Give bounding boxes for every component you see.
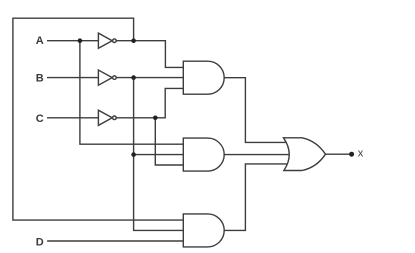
svg-text:D: D [36,237,44,249]
wire input C [47,117,98,119]
and-gate G2 [183,138,224,171]
wire AND gate G3 output to OR gate input 3 [224,164,288,231]
wire NOT-B vertical node to AND gate G2 input 2 [134,154,184,156]
node junction NOT-B output [131,75,136,80]
svg-text:x: x [358,148,364,160]
wire input B [47,77,98,79]
node junction NOT-C output [153,116,158,121]
wire NOT-A output to node [116,40,133,42]
wire AND gate G2 output to OR gate input 2 [224,154,290,156]
and-gate G1 [183,61,224,94]
inverter NOT-A [98,33,112,48]
node junction on NOT-B vertical [131,152,136,157]
wire NOT-C node down to AND gate G2 input 3 [155,118,183,165]
wire NOT-A node up, around left side, to AND gate G3 input 1 [13,18,183,220]
node junction on wire A [78,38,83,43]
wire A branch down to AND gate G2 input 1 [80,41,183,145]
node junction NOT-A output [131,38,136,43]
svg-text:C: C [36,113,44,125]
wire NOT-A node right/down to AND gate G1 input 1 [134,41,184,68]
wire OR gate output to terminal x [326,153,351,155]
inverter NOT-C [98,110,112,125]
and-gate G3 [183,214,224,247]
wire input A [47,40,98,42]
inverter NOT-B [98,70,112,85]
wire NOT-B node down to AND gate G3 input 2 [134,78,184,231]
or-gate G4 [284,138,326,171]
node terminal x [349,152,354,157]
svg-text:A: A [36,35,44,47]
wire input D to AND gate G3 input 3 [47,240,183,242]
wire NOT-B output to AND gate G1 input 2 [116,77,183,79]
wire NOT-C output up to AND gate G1 input 3 [116,88,183,117]
svg-text:B: B [36,73,44,85]
wire AND gate G1 output to OR gate input 1 [224,78,288,143]
